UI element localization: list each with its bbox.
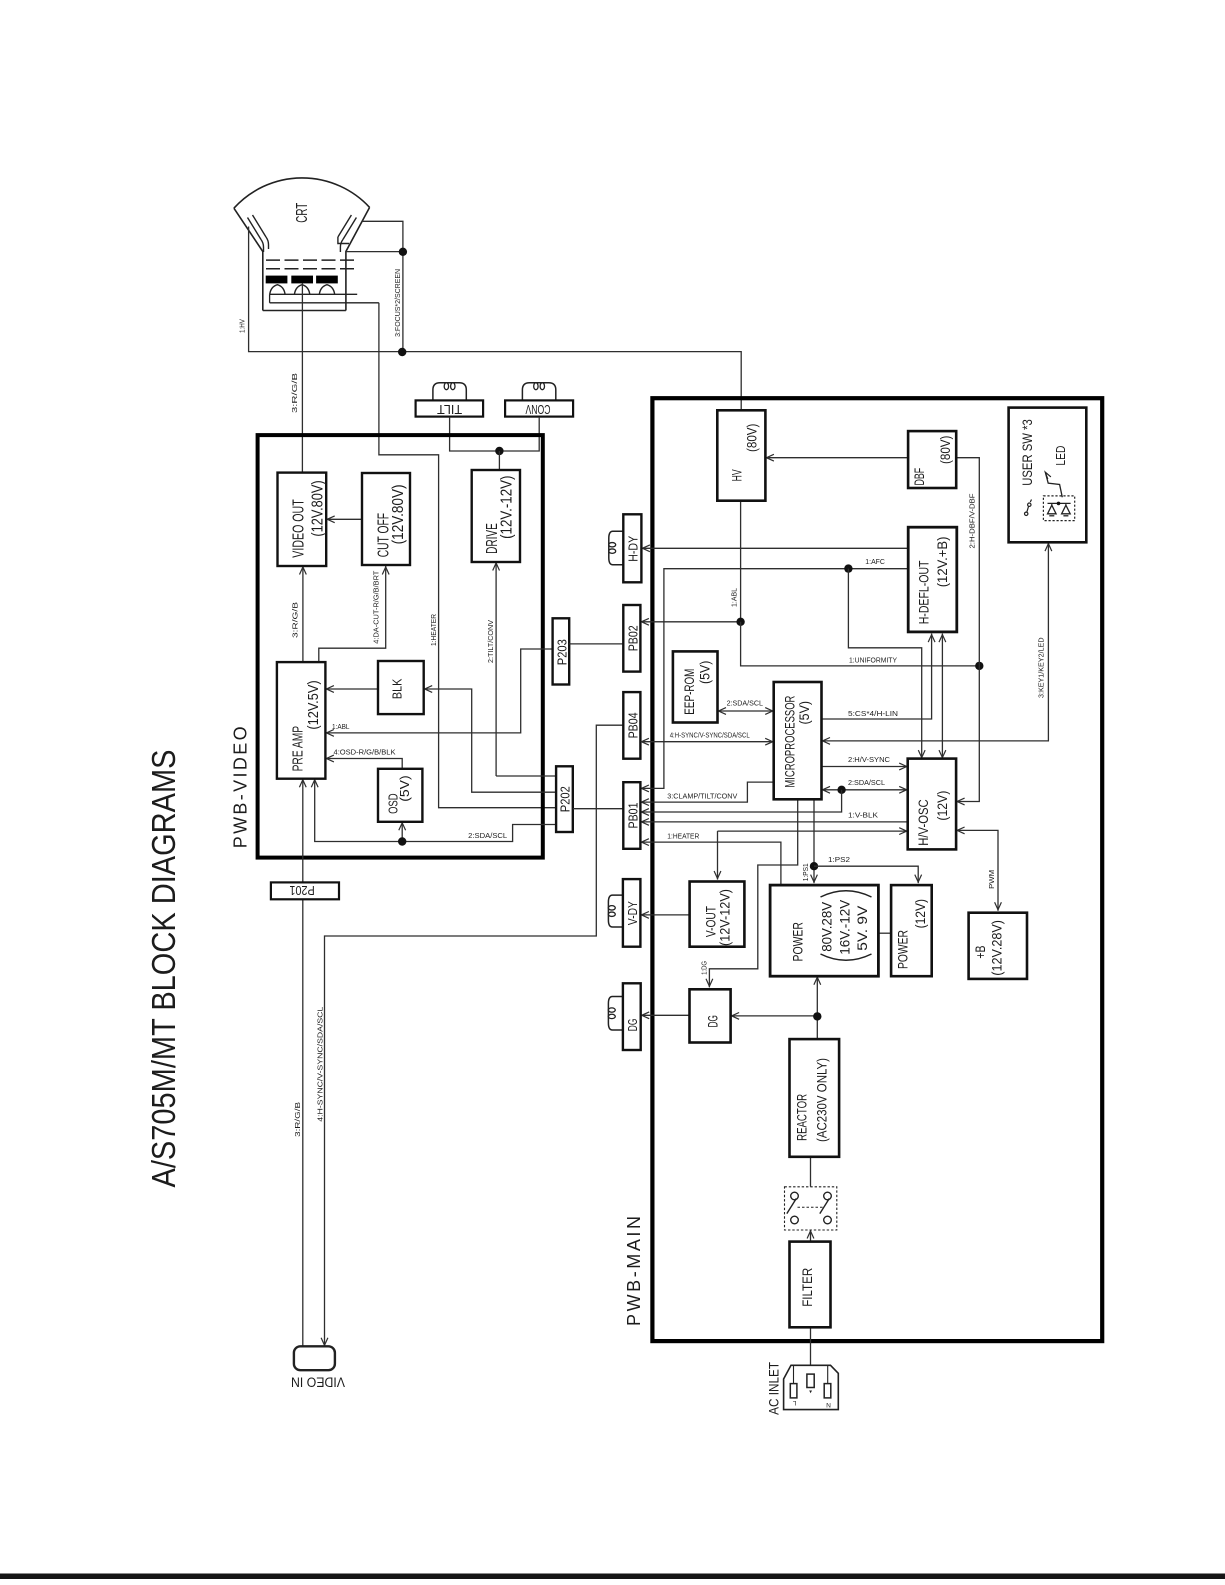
svg-text:DBF: DBF — [911, 468, 927, 486]
svg-text:3:R/G/B: 3:R/G/B — [291, 602, 300, 638]
svg-text:FILTER: FILTER — [799, 1268, 815, 1307]
svg-text:(12V): (12V) — [934, 791, 950, 821]
svg-text:BLK: BLK — [390, 678, 405, 699]
svg-text:H-DY: H-DY — [626, 535, 641, 561]
svg-text:2:H-DBF/V-DBF: 2:H-DBF/V-DBF — [968, 493, 977, 549]
svg-text:POWER: POWER — [895, 930, 911, 969]
svg-text:LED: LED — [1053, 446, 1068, 466]
svg-text:(12V.28V): (12V.28V) — [989, 920, 1005, 976]
svg-text:DG: DG — [705, 1015, 721, 1027]
svg-text:(80V): (80V) — [937, 436, 953, 464]
svg-text:(5V): (5V) — [797, 701, 812, 725]
svg-text:4:H-SYNC/V-SYNC/SDA/SCL: 4:H-SYNC/V-SYNC/SDA/SCL — [670, 731, 750, 740]
svg-text:1:ABL: 1:ABL — [730, 588, 739, 607]
svg-text:VIDEO OUT: VIDEO OUT — [290, 499, 307, 558]
svg-text:1:HEATER: 1:HEATER — [429, 614, 438, 646]
svg-text:H-DEFL-OUT: H-DEFL-OUT — [917, 560, 933, 624]
svg-text:4:DA-CUT-R/G/B/BRT: 4:DA-CUT-R/G/B/BRT — [371, 570, 380, 644]
svg-text:1:HV: 1:HV — [238, 319, 247, 333]
svg-text:3:R/G/B: 3:R/G/B — [293, 1102, 302, 1137]
svg-text:CRT: CRT — [294, 202, 311, 222]
svg-text:3:FOCUS*2/SCREEN: 3:FOCUS*2/SCREEN — [393, 269, 402, 337]
svg-text:P202: P202 — [558, 786, 573, 812]
svg-text:2:SDA/SCL: 2:SDA/SCL — [848, 778, 885, 787]
svg-text:DG: DG — [625, 1019, 640, 1032]
svg-text:(AC230V ONLY): (AC230V ONLY) — [814, 1058, 830, 1142]
svg-text:1:ABL: 1:ABL — [332, 722, 350, 731]
svg-text:3:CLAMP/TILT/CONV: 3:CLAMP/TILT/CONV — [667, 792, 737, 801]
svg-text:1:AFC: 1:AFC — [865, 557, 885, 566]
svg-text:1:HEATER: 1:HEATER — [667, 832, 699, 841]
svg-text:4:OSD-R/G/B/BLK: 4:OSD-R/G/B/BLK — [334, 748, 396, 757]
svg-text:L: L — [792, 1399, 796, 1406]
svg-text:(12V.80V): (12V.80V) — [390, 484, 407, 544]
svg-text:TILT: TILT — [437, 402, 462, 416]
svg-text:1:V-BLK: 1:V-BLK — [848, 810, 878, 819]
svg-text:(12V.-12V): (12V.-12V) — [498, 476, 515, 539]
svg-text:P201: P201 — [289, 883, 314, 898]
svg-text:(5V): (5V) — [697, 661, 713, 684]
svg-text:PB01: PB01 — [626, 803, 641, 829]
svg-text:CONV: CONV — [525, 402, 550, 416]
svg-text:80V.28V: 80V.28V — [818, 901, 834, 952]
svg-text:EEP-ROM: EEP-ROM — [681, 669, 697, 715]
svg-text:2:H/V-SYNC: 2:H/V-SYNC — [848, 755, 890, 764]
svg-text:A/S705M/MT BLOCK DIAGRAMS: A/S705M/MT BLOCK DIAGRAMS — [145, 750, 182, 1188]
svg-text:N: N — [826, 1401, 831, 1408]
svg-text:(12V.80V): (12V.80V) — [309, 480, 326, 536]
svg-text:PWB-VIDEO: PWB-VIDEO — [230, 726, 250, 848]
svg-text:V-DY: V-DY — [625, 901, 640, 925]
svg-text:VIDEO IN: VIDEO IN — [291, 1374, 345, 1389]
svg-text:1:UNIFORMITY: 1:UNIFORMITY — [849, 656, 897, 665]
svg-text:3:KEY1/KEY2/LED: 3:KEY1/KEY2/LED — [1037, 638, 1046, 699]
svg-text:1:PS2: 1:PS2 — [828, 855, 850, 864]
svg-text:(80V): (80V) — [744, 424, 760, 452]
svg-text:2:TILT/CONV: 2:TILT/CONV — [486, 620, 495, 663]
svg-text:1:DG: 1:DG — [700, 961, 709, 975]
svg-text:PRE AMP: PRE AMP — [289, 726, 306, 772]
svg-text:16V.-12V: 16V.-12V — [837, 899, 853, 955]
svg-text:+B: +B — [972, 946, 988, 959]
svg-text:(12V.5V): (12V.5V) — [305, 680, 322, 729]
svg-text:(12V.+B): (12V.+B) — [935, 537, 951, 588]
svg-text:4:H-SYNC/V-SYNC/SDA/SCL: 4:H-SYNC/V-SYNC/SDA/SCL — [316, 1007, 325, 1122]
svg-text:(12V-12V): (12V-12V) — [717, 889, 733, 946]
svg-text:HV: HV — [729, 469, 745, 481]
svg-text:PWM: PWM — [987, 870, 996, 889]
svg-text:POWER: POWER — [790, 922, 806, 961]
svg-text:(12V): (12V) — [912, 899, 928, 928]
svg-text:REACTOR: REACTOR — [794, 1094, 810, 1141]
svg-text:USER SW *3: USER SW *3 — [1019, 419, 1035, 486]
svg-text:5:CS*4/H-LIN: 5:CS*4/H-LIN — [848, 709, 898, 718]
svg-text:2:SDA/SCL: 2:SDA/SCL — [727, 699, 763, 708]
svg-text:2:SDA/SCL: 2:SDA/SCL — [468, 831, 507, 840]
svg-text:5V. 9V: 5V. 9V — [854, 905, 870, 951]
svg-text:MICROPROCESSOR: MICROPROCESSOR — [782, 696, 797, 788]
svg-text:(5V): (5V) — [397, 775, 412, 802]
svg-text:3:R/G/B: 3:R/G/B — [290, 373, 299, 413]
svg-text:H/V-OSC: H/V-OSC — [915, 799, 931, 845]
svg-text:AC INLET: AC INLET — [766, 1362, 782, 1415]
svg-text:P203: P203 — [554, 639, 569, 665]
svg-text:PB02: PB02 — [626, 625, 641, 651]
svg-text:PB04: PB04 — [626, 712, 641, 738]
svg-text:1:PS1: 1:PS1 — [801, 863, 810, 881]
